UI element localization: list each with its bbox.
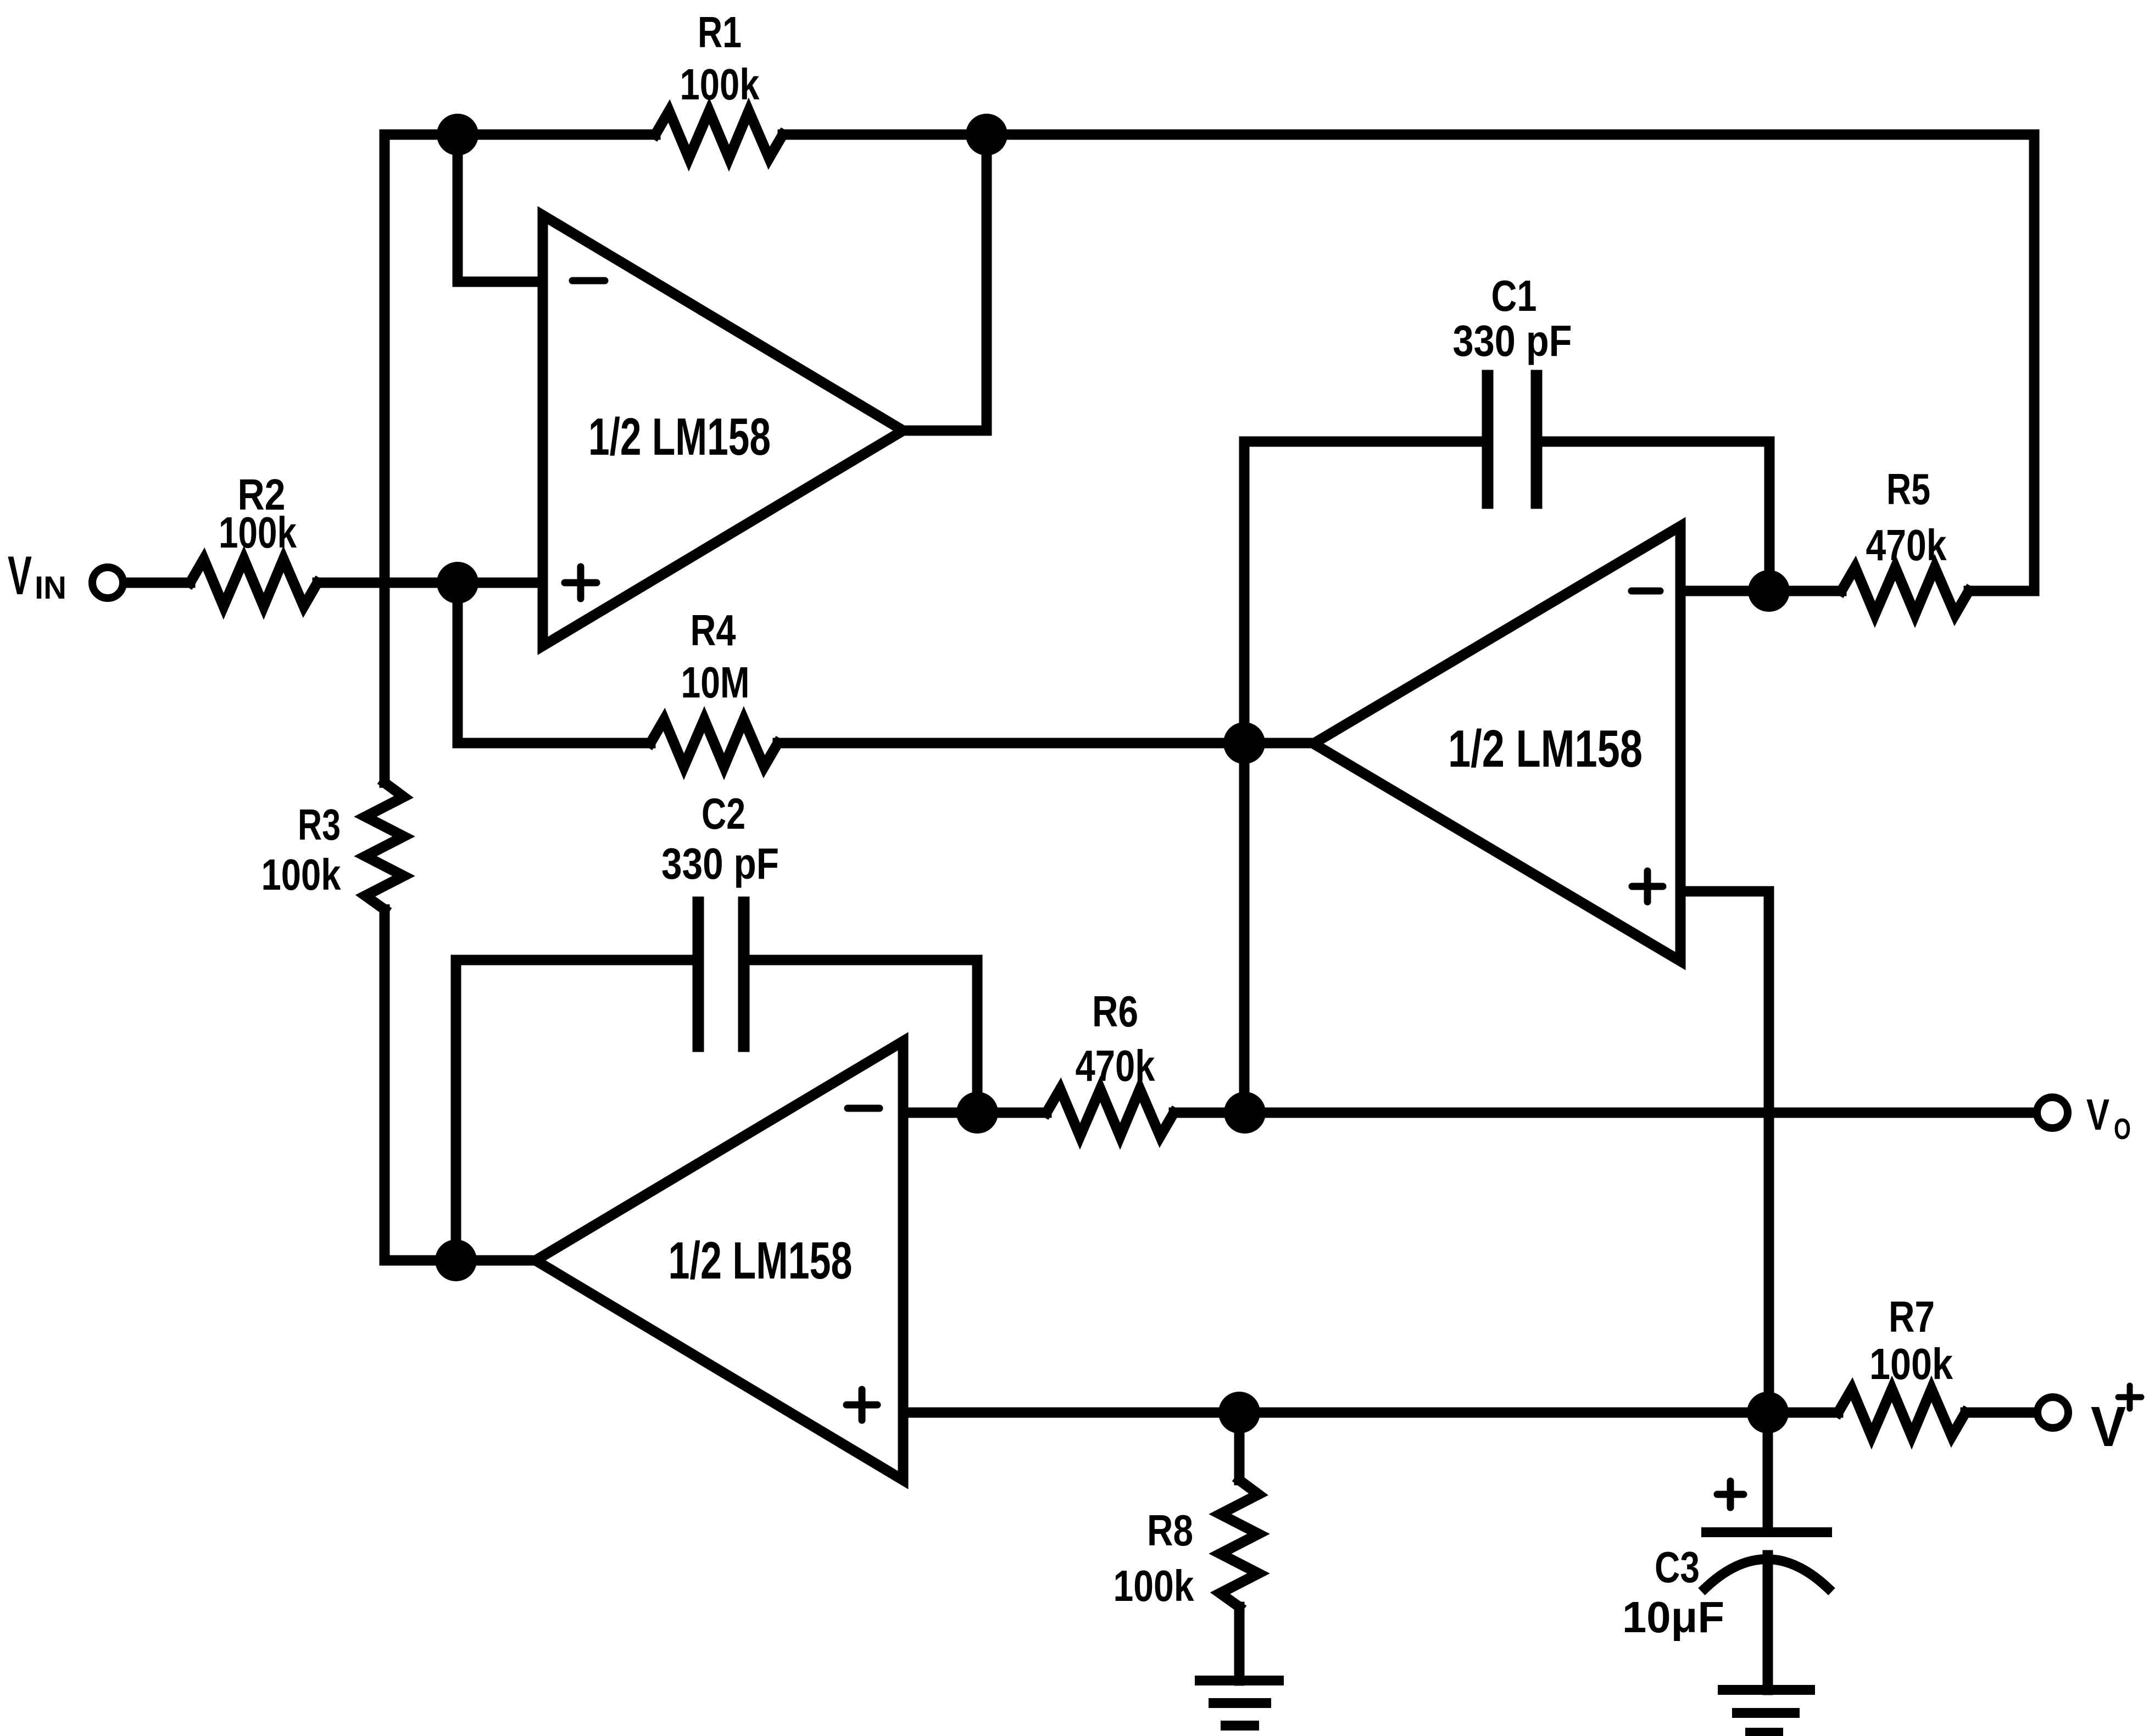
resistor R6 — [1046, 1089, 1174, 1136]
wire C3 to ground — [1763, 1555, 1773, 1690]
U2 minus symbol — [1632, 588, 1660, 595]
ground symbol below C3 — [1723, 1690, 1810, 1733]
capacitor C3 curved plate — [1705, 1559, 1828, 1588]
U3 plus symbol — [847, 1389, 877, 1420]
resistor R5 — [1841, 567, 1969, 615]
U1 plus symbol — [565, 567, 597, 599]
wire U3 inverting input to R6 — [903, 1108, 1046, 1118]
svg-text:470k: 470k — [1076, 1041, 1155, 1090]
svg-text:100k: 100k — [261, 850, 341, 899]
svg-text:1/2 LM158: 1/2 LM158 — [669, 1231, 853, 1290]
svg-text:100k: 100k — [1869, 1339, 1953, 1388]
svg-text:1/2 LM158: 1/2 LM158 — [588, 408, 771, 466]
U1 minus symbol — [572, 277, 605, 284]
svg-text:C3: C3 — [1655, 1543, 1700, 1592]
svg-text:330 pF: 330 pF — [1453, 316, 1572, 365]
junction node E (R3 / C2 / U3 apex) — [435, 1240, 477, 1281]
wire node D up to C1 — [1244, 442, 1483, 743]
wire C1 right plate down to node H — [1541, 442, 1769, 591]
junction node H (U2 inverting / C1 / R5) — [1748, 570, 1790, 612]
wire R7 to V+ terminal — [1966, 1408, 2033, 1418]
wire top rail right segment — [783, 130, 2034, 140]
junction node C (R2 / U1 noninverting / R4) — [437, 562, 478, 604]
capacitor C2 right plate — [738, 902, 750, 1046]
wire node C down to R4 level — [458, 583, 650, 743]
capacitor C2 left plate — [693, 902, 704, 1046]
svg-text:R1: R1 — [698, 8, 742, 57]
wire R8 to ground — [1234, 1607, 1245, 1681]
wire node J down to R8 — [1234, 1413, 1245, 1480]
op-amp U1 triangle — [543, 215, 903, 646]
svg-text:R3: R3 — [298, 800, 341, 849]
op-amp U3 triangle — [536, 1041, 903, 1480]
resistor R8 — [1220, 1480, 1259, 1607]
terminal VIN circle — [92, 567, 123, 598]
svg-text:R6: R6 — [1092, 987, 1138, 1036]
capacitor C1 right plate — [1531, 376, 1543, 503]
wire right edge vertical (top rail to R5) — [2029, 135, 2040, 591]
C3 polarity plus symbol — [1717, 1481, 1744, 1508]
svg-text:470k: 470k — [1866, 521, 1947, 570]
capacitor C1 left plate — [1482, 376, 1494, 503]
svg-text:100k: 100k — [680, 60, 760, 109]
svg-text:10μF: 10μF — [1622, 1593, 1724, 1642]
svg-text:1/2 LM158: 1/2 LM158 — [1448, 719, 1643, 778]
resistor R4 — [650, 719, 778, 767]
junction node F (C2 / U3 inverting / R6) — [956, 1092, 998, 1134]
svg-text:R5: R5 — [1886, 465, 1930, 513]
junction node I (V+ rail / C3) — [1747, 1392, 1789, 1433]
junction node D (R4 / C1 / U2 apex) — [1223, 722, 1265, 764]
wire R3 branch top segment — [380, 135, 390, 783]
wire R6 to VO terminal — [1174, 1108, 2033, 1118]
wire R3 bottom to U3 apex — [385, 909, 536, 1260]
svg-text:V: V — [8, 545, 32, 606]
svg-text:100k: 100k — [1114, 1561, 1194, 1610]
resistor R7 — [1838, 1389, 1966, 1436]
U2 plus symbol — [1632, 871, 1663, 902]
wire node E up to C2 — [456, 960, 693, 1260]
svg-text:V: V — [2091, 1395, 2126, 1458]
wire R4 to U2 apex — [778, 738, 1313, 749]
svg-text:O: O — [2114, 1113, 2131, 1146]
wire node D down to node G — [1239, 743, 1250, 1113]
wire U2 noninverting input down to V+ rail — [1680, 891, 1769, 1413]
wire R2 to U1 noninverting input — [318, 578, 543, 588]
wire U2 inverting input to R5 — [1680, 586, 1841, 596]
junction node A (R1 left / U1 inverting) — [437, 114, 478, 155]
U3 minus symbol — [848, 1105, 879, 1112]
svg-text:V: V — [2086, 1090, 2109, 1139]
resistor R2 — [190, 559, 318, 606]
terminal V+ circle — [2037, 1397, 2068, 1428]
svg-text:C1: C1 — [1491, 271, 1537, 320]
junction node B (R1 right / U1 output) — [966, 114, 1007, 155]
svg-text:R7: R7 — [1889, 1292, 1935, 1341]
capacitor C3 top plate — [1706, 1527, 1827, 1537]
svg-text:100k: 100k — [219, 508, 297, 557]
V+ label plus symbol — [2118, 1386, 2141, 1409]
svg-text:R4: R4 — [691, 606, 736, 655]
svg-text:C2: C2 — [702, 789, 745, 838]
terminal VO circle — [2037, 1097, 2068, 1128]
resistor R1 — [655, 111, 783, 158]
wire top rail left segment — [385, 130, 655, 140]
junction node J (V+ rail / R8) — [1218, 1392, 1260, 1433]
svg-text:IN: IN — [35, 570, 66, 606]
wire U1 output to top rail — [903, 135, 987, 431]
svg-text:R8: R8 — [1147, 1506, 1193, 1555]
junction node G (R6 / VO line) — [1224, 1092, 1266, 1134]
svg-text:330 pF: 330 pF — [661, 839, 779, 888]
svg-text:10M: 10M — [681, 658, 750, 707]
resistor R3 — [365, 783, 404, 909]
ground symbol below R8 — [1200, 1681, 1279, 1726]
wire VIN terminal to R2 — [123, 578, 190, 588]
wire C2 right plate to U3 inverting input — [749, 960, 977, 1113]
op-amp U2 triangle — [1313, 526, 1680, 961]
wire V+ rail — [903, 1408, 1838, 1418]
wire node I down to C3 — [1763, 1413, 1773, 1528]
wire R5 to right edge — [1969, 586, 2034, 596]
wire U1 inverting input elbow — [458, 135, 543, 282]
